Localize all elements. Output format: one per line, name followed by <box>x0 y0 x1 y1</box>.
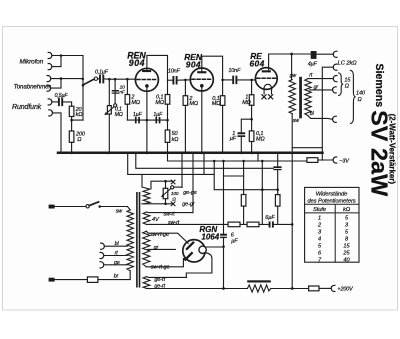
svg-text:Widerstände: Widerstände <box>316 191 348 197</box>
winding 4V heater <box>143 212 150 224</box>
gr tap <box>148 248 176 250</box>
X mark heater bottom <box>171 202 175 206</box>
jack Tonabnehmer bottom <box>47 85 51 91</box>
terminal +200V <box>331 285 335 291</box>
svg-text:4: 4 <box>318 236 321 242</box>
svg-text:Ω: Ω <box>77 137 81 143</box>
mains cord blob N <box>49 278 55 282</box>
wire bl tap to jack <box>308 116 333 120</box>
switch input selector <box>82 78 85 81</box>
svg-text:LC 2kΩ: LC 2kΩ <box>338 61 358 67</box>
wire anode bracket V1 <box>147 55 168 80</box>
output transformer secondary <box>305 79 311 116</box>
wire tonabnehmer join <box>51 79 83 89</box>
wire rt tap to jack <box>308 78 333 80</box>
svg-text:gr: gr <box>154 245 159 251</box>
svg-text:gr: gr <box>314 85 319 91</box>
resistor filter R2 <box>277 153 279 167</box>
wire B bias left <box>128 153 215 187</box>
jack Rundfunk top <box>48 99 52 105</box>
wire bias drop to bus <box>214 161 278 190</box>
power triode RE604 V3 <box>255 68 277 90</box>
wire HT drop x223.5 <box>223 161 225 234</box>
svg-text:MΩ: MΩ <box>115 112 123 118</box>
svg-text:Mikrofon: Mikrofon <box>20 59 44 66</box>
resistor 2MOhm grid2 <box>184 80 186 96</box>
svg-text:kΩ: kΩ <box>343 207 351 213</box>
jack tap ge <box>100 262 104 268</box>
svg-text:sw-rt-ge: sw-rt-ge <box>150 232 169 238</box>
capacitor 6uF first <box>220 234 227 236</box>
svg-text:Tonabnehmer: Tonabnehmer <box>14 84 52 91</box>
resistor 200 Ohm <box>71 120 73 131</box>
mains cord blob L <box>49 205 55 209</box>
fuse <box>87 277 98 283</box>
svg-text:ge: ge <box>114 260 120 266</box>
svg-text:100: 100 <box>171 191 179 196</box>
resistor 1MOhm grid3 <box>251 80 253 95</box>
resistor 0,1MOhm bias3 <box>249 131 254 142</box>
svg-text:40: 40 <box>343 257 350 263</box>
svg-text:MΩ: MΩ <box>212 101 221 107</box>
jack tap rt <box>100 252 104 258</box>
wire 20k bottom <box>72 117 83 121</box>
resistor 0,1MOhm anode2 <box>222 80 224 96</box>
svg-text:Stufe: Stufe <box>313 207 327 213</box>
brace 15 Ohm <box>339 73 344 96</box>
wire cathode V2 <box>201 88 203 153</box>
jack output 4 <box>333 87 337 93</box>
svg-text:904: 904 <box>129 58 145 68</box>
wire cap to 20k <box>63 102 72 106</box>
capacitor 10nF coupling 1 <box>168 79 173 81</box>
ground rail <box>58 151 323 154</box>
jack LC 2kOhm output <box>333 51 337 57</box>
capacitor 10nF tone <box>114 79 116 104</box>
svg-text:ge-ge: ge-ge <box>183 190 197 196</box>
svg-text:6µF: 6µF <box>265 215 275 221</box>
node mik join <box>60 54 63 57</box>
svg-text:+200V: +200V <box>337 287 354 293</box>
capacitor 0,5uF <box>59 99 62 106</box>
svg-text:Ω: Ω <box>358 97 362 103</box>
capacitor 1uF a <box>135 117 137 123</box>
title Siemens <box>373 64 385 108</box>
jack tap bl <box>101 243 105 249</box>
svg-text:1µF: 1µF <box>133 112 143 118</box>
mains transformer primary <box>127 207 130 210</box>
winding ge-rt rectifier heater <box>143 277 150 289</box>
wire anode bracket V2 <box>202 56 223 80</box>
svg-text:140: 140 <box>356 90 366 96</box>
node ton join <box>60 77 63 80</box>
wire rundfunk top to cap <box>52 101 58 103</box>
svg-text:15: 15 <box>344 77 351 83</box>
svg-text:604: 604 <box>250 58 265 68</box>
wire rundfunk bottom to rail <box>53 113 61 153</box>
wire primary bottom to jack2 drop <box>292 147 322 149</box>
svg-text:Rundfunk: Rundfunk <box>12 104 42 111</box>
svg-text:1064: 1064 <box>201 233 219 242</box>
resistor bias feed <box>307 158 318 163</box>
wire vertical x262 <box>261 161 263 225</box>
jack Rundfunk bottom <box>49 110 53 116</box>
capacitor 10nF coupling 2 <box>223 79 233 81</box>
svg-text:µF: µF <box>230 136 237 142</box>
resistor +200V feed <box>309 286 319 291</box>
winding ge-ge heater <box>142 187 150 204</box>
svg-text:25: 25 <box>342 250 350 256</box>
resistor smoothing A <box>228 222 240 227</box>
capacitor 6uF second <box>269 221 271 227</box>
wire hum right drop <box>181 153 183 188</box>
X mark heater top <box>171 180 175 184</box>
svg-text:kΩ: kΩ <box>172 137 179 143</box>
smoothing bus y224 <box>150 223 292 225</box>
svg-text:−3V: −3V <box>339 158 350 164</box>
wire mikrofon pair join <box>52 56 83 67</box>
wire y168 branch <box>224 167 274 169</box>
potentiometer 100 Ohm hum <box>165 181 167 204</box>
terminal -3V <box>333 157 337 163</box>
title subtitle 2-Watt-Verstaerker <box>387 114 396 185</box>
resistor 0,1MOhm anode1 <box>167 80 169 94</box>
svg-text:15: 15 <box>343 243 350 249</box>
svg-text:µF: µF <box>231 238 238 244</box>
output transformer core <box>299 77 302 119</box>
svg-text:MΩ: MΩ <box>189 101 198 107</box>
output transformer T1 primary gw <box>291 54 293 80</box>
jack output 3 <box>333 76 337 82</box>
svg-text:0,5µF: 0,5µF <box>55 93 69 99</box>
mains transformer core <box>136 192 138 288</box>
svg-text:des Potentiometers: des Potentiometers <box>307 198 355 204</box>
wire mikrofon bus down <box>82 56 84 121</box>
capacitor 0,1uF <box>98 78 100 80</box>
svg-text:sw-rt: sw-rt <box>168 220 180 226</box>
wire mains to switch <box>55 206 86 208</box>
jack Tonabnehmer top <box>47 76 51 82</box>
jack Mikrofon bottom <box>48 63 52 69</box>
svg-text:kΩ: kΩ <box>76 112 83 118</box>
svg-text:br: br <box>114 274 119 280</box>
svg-text:MΩ: MΩ <box>256 137 265 143</box>
wire vertical x204 <box>203 153 205 175</box>
wire anode V3 to top rail <box>269 54 311 70</box>
resistor 2MOhm grid1 <box>126 79 128 94</box>
resistor filter R1 <box>243 161 245 195</box>
title SV 2aW <box>366 110 392 197</box>
svg-text:(2-Watt-Verstärker): (2-Watt-Verstärker) <box>387 114 396 185</box>
wire to grid 1 <box>104 78 135 80</box>
mains switch <box>86 205 89 208</box>
resistor 20kOhm <box>69 106 74 116</box>
svg-text:4µF: 4µF <box>308 61 318 67</box>
wire rectifier output <box>206 246 224 248</box>
wire heater feed x193 <box>192 153 194 213</box>
svg-text:Siemens: Siemens <box>373 64 385 108</box>
svg-text:MΩ: MΩ <box>131 100 140 106</box>
svg-text:MΩ: MΩ <box>155 100 164 106</box>
capacitor 1uF bias3 <box>241 119 251 132</box>
svg-text:ge-rt: ge-rt <box>154 277 165 283</box>
svg-text:MΩ: MΩ <box>242 100 251 106</box>
resistor 50kOhm <box>165 130 170 142</box>
svg-text:ge-gr: ge-gr <box>182 202 196 208</box>
jack Mikrofon top <box>48 52 52 58</box>
svg-text:sw-rt-ge: sw-rt-ge <box>151 264 170 270</box>
filament leads and X marks V3 <box>264 89 271 94</box>
wire cathode bus 1 <box>127 119 167 121</box>
svg-text:1µF: 1µF <box>153 112 163 118</box>
triode REN904 V2 <box>190 68 213 91</box>
wire C bias mid <box>136 153 224 169</box>
svg-text:Ω: Ω <box>345 84 349 90</box>
wire jack2 to rail <box>322 67 333 151</box>
svg-text:0,1µF: 0,1µF <box>95 69 109 75</box>
wire x292 down <box>291 153 293 289</box>
capacitor 1uF b <box>155 117 157 123</box>
svg-text:10nF: 10nF <box>168 68 181 74</box>
table Widerstaende des Potentiometers <box>305 187 359 262</box>
choke field coil <box>247 280 271 282</box>
capacitor 4uF <box>311 51 317 59</box>
wire cathode V1 <box>146 88 148 153</box>
rectifier RGN1064 <box>183 240 205 262</box>
svg-text:sw-rt: sw-rt <box>164 211 176 217</box>
svg-text:904: 904 <box>186 60 201 70</box>
brace 140 Ohm <box>350 70 355 123</box>
triode REN904 V1 <box>135 68 158 91</box>
jack output 2 <box>333 64 337 70</box>
svg-text:10nF: 10nF <box>228 68 241 74</box>
svg-text:Ω: Ω <box>172 196 176 201</box>
jack output 5 <box>333 116 337 122</box>
winding HT sw-rt-ge <box>143 231 150 267</box>
resistor smoothing B <box>247 222 259 227</box>
potentiometer 0,1MOhm volume <box>108 79 110 105</box>
svg-text:1: 1 <box>318 215 321 221</box>
wire bias -3V <box>168 153 307 161</box>
bottom HT rail <box>150 288 247 290</box>
wire gr tap to jack <box>310 89 333 91</box>
